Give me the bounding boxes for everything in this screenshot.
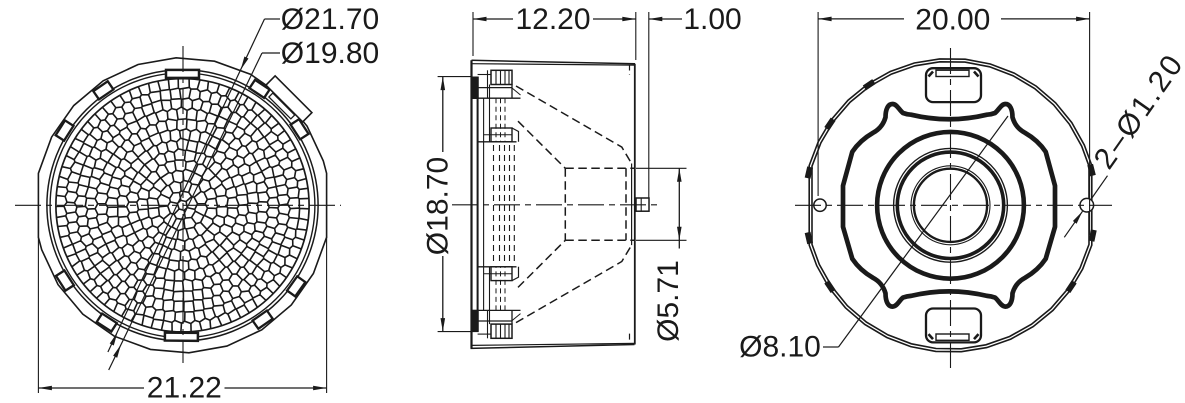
left view: lens front bbox=[15, 19, 341, 393]
svg-text:20.00: 20.00 bbox=[915, 4, 990, 37]
outer outline double bbox=[809, 59, 1092, 352]
leader dia 8.10 bbox=[823, 346, 839, 348]
leader dia 21.70 bbox=[108, 19, 265, 352]
body outline bbox=[470, 60, 472, 348]
key tab at NE bbox=[261, 76, 311, 126]
leader dia 19.80 bbox=[109, 53, 262, 370]
rim tick at 214 deg bbox=[825, 281, 834, 292]
hidden edge column x=504.5 bbox=[504, 145, 506, 264]
lens active area circle bbox=[56, 79, 309, 332]
rim band tab at 237 deg bbox=[97, 314, 117, 332]
dim dia 5.71 bbox=[636, 167, 687, 169]
svg-text:Ø18.70: Ø18.70 bbox=[422, 157, 455, 255]
rim tab at 90 deg bbox=[166, 70, 199, 78]
svg-text:21.22: 21.22 bbox=[147, 372, 222, 403]
hidden edge column x=514.3 bbox=[513, 145, 515, 264]
dim dia 18.70 bbox=[438, 76, 471, 78]
rim tick at 167 deg bbox=[806, 167, 813, 178]
clip assembly bottom bbox=[478, 267, 521, 339]
clip assembly top bbox=[478, 70, 521, 142]
right view: lens back bbox=[795, 12, 1112, 372]
rim tab at 270 deg bbox=[165, 333, 198, 341]
dim 12.20 bbox=[472, 12, 474, 56]
dim 20.00 bbox=[817, 12, 819, 196]
dim 1.00 bbox=[648, 12, 650, 198]
rim band tab at 56 deg bbox=[250, 80, 270, 98]
rim tick at 14 deg bbox=[1088, 165, 1095, 176]
svg-text:1.00: 1.00 bbox=[683, 3, 741, 36]
inner circles bbox=[877, 132, 1024, 279]
flange lips (dark) bbox=[472, 77, 479, 99]
rim band tab at 213 deg bbox=[56, 270, 74, 290]
middle view: side section bbox=[438, 12, 687, 348]
leader 2x dia 1.20 bbox=[1064, 211, 1082, 237]
svg-text:12.20: 12.20 bbox=[515, 3, 590, 36]
rim tick at 124 deg bbox=[864, 80, 875, 89]
screw holes 2x dia1.20 bbox=[814, 199, 826, 211]
hidden cone lines bbox=[516, 86, 632, 164]
center lines bbox=[15, 204, 341, 206]
center lines bbox=[795, 204, 1112, 206]
rim band tab at 305 deg bbox=[253, 311, 273, 329]
outer flange outline (faceted, flats W/E) bbox=[38, 58, 326, 353]
rim tick at 193 deg bbox=[806, 233, 813, 244]
hidden edge column x=493.5 bbox=[493, 145, 495, 264]
inner ring circle bbox=[50, 73, 315, 338]
ring circle (diam 19.80) bbox=[47, 70, 318, 341]
svg-text:Ø5.71: Ø5.71 bbox=[652, 260, 685, 342]
rim band tab at 124 deg bbox=[93, 81, 113, 99]
svg-text:Ø21.70: Ø21.70 bbox=[281, 3, 379, 36]
inner wall line bbox=[631, 164, 633, 246]
rim band tab at 33 deg bbox=[291, 119, 309, 139]
honeycomb lens texture bbox=[56, 79, 309, 332]
rim tick at -34 deg bbox=[1066, 281, 1075, 292]
hidden edge column x=509.5 bbox=[509, 145, 511, 264]
gear profile (thick) bbox=[843, 104, 1055, 307]
hidden LED pocket bbox=[565, 167, 634, 169]
flange face lines bbox=[477, 77, 479, 332]
rim band tab at 324 deg bbox=[287, 276, 305, 296]
dim 21.22 bbox=[37, 237, 39, 393]
rim tick at 146 deg bbox=[825, 119, 834, 130]
rim band tab at 148 deg bbox=[56, 120, 74, 140]
mounting tab N bbox=[926, 68, 981, 102]
rim tick at -12 deg bbox=[1089, 230, 1095, 241]
svg-text:Ø8.10: Ø8.10 bbox=[739, 331, 821, 364]
svg-text:Ø19.80: Ø19.80 bbox=[281, 37, 379, 70]
mounting tab S bbox=[926, 309, 981, 343]
center line bbox=[452, 204, 659, 206]
hidden edge column x=499.5 bbox=[499, 145, 501, 264]
rear stub bbox=[636, 198, 649, 211]
